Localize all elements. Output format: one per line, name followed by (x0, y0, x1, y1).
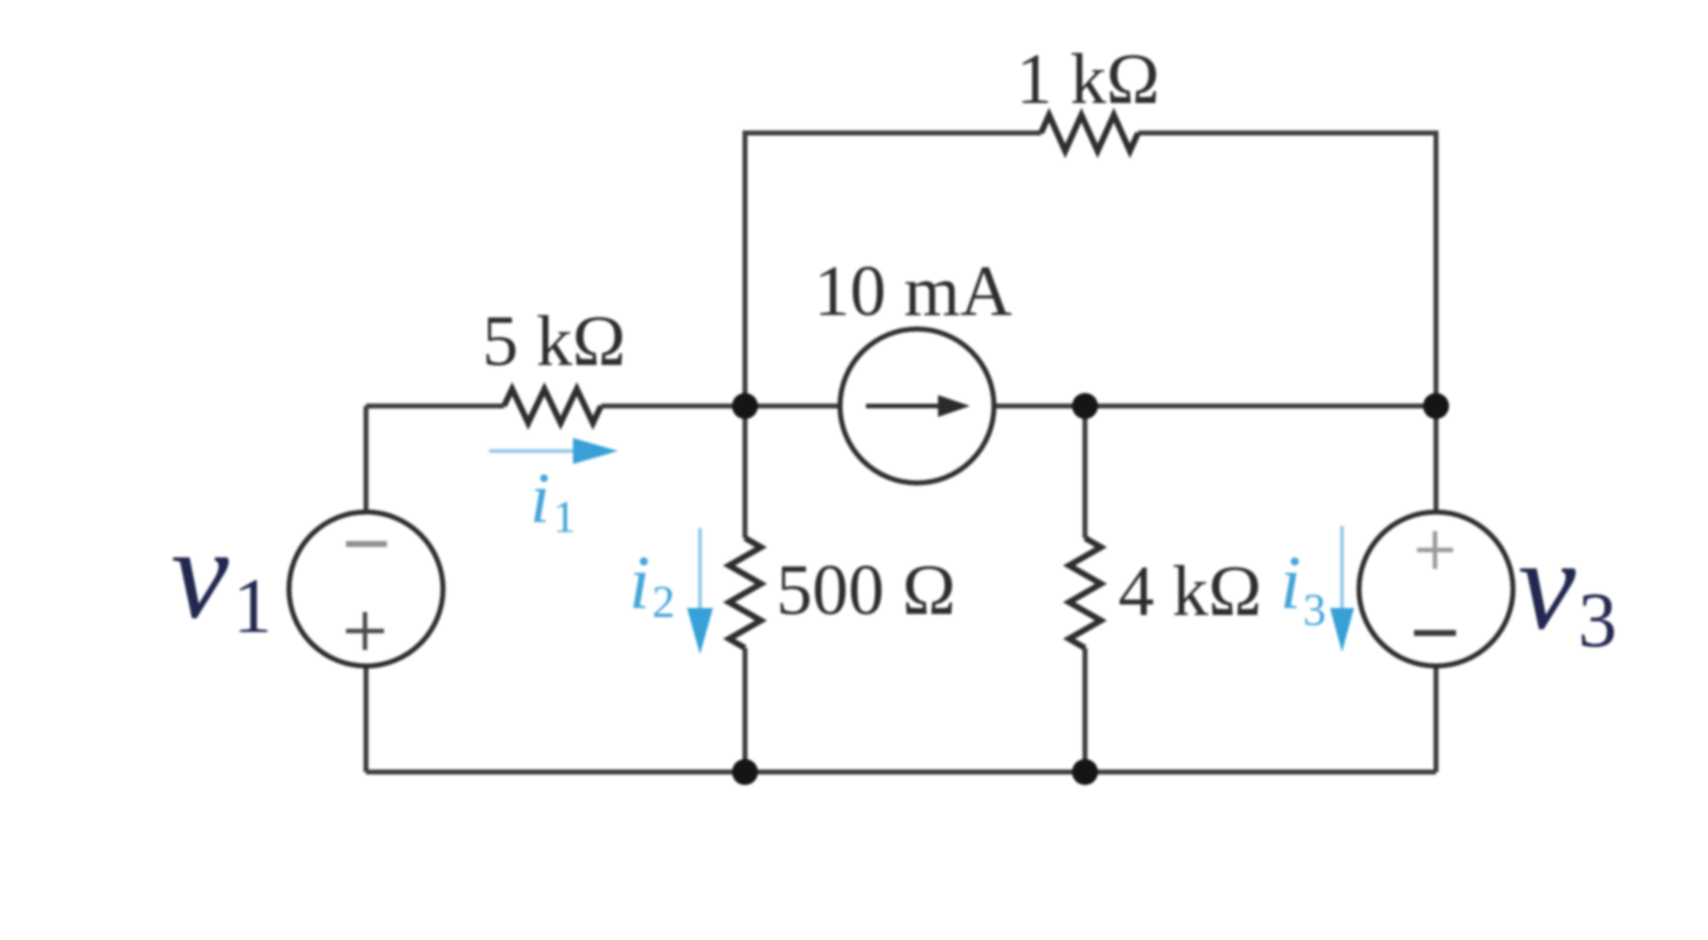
svg-text:4 kΩ: 4 kΩ (1118, 551, 1262, 631)
svg-text:10 mA: 10 mA (814, 251, 1012, 331)
svg-text:3: 3 (1578, 576, 1617, 663)
svg-text:v: v (1518, 513, 1576, 657)
svg-text:i: i (1280, 541, 1301, 625)
svg-text:2: 2 (652, 576, 675, 627)
svg-text:3: 3 (1303, 584, 1326, 635)
svg-text:1 kΩ: 1 kΩ (1016, 39, 1160, 119)
svg-text:1: 1 (553, 491, 576, 542)
svg-text:5 kΩ: 5 kΩ (482, 301, 626, 381)
svg-text:i: i (629, 541, 650, 625)
svg-text:i: i (530, 458, 550, 538)
svg-text:1: 1 (233, 562, 272, 649)
svg-text:v: v (171, 502, 229, 646)
svg-text:500 Ω: 500 Ω (776, 550, 956, 630)
